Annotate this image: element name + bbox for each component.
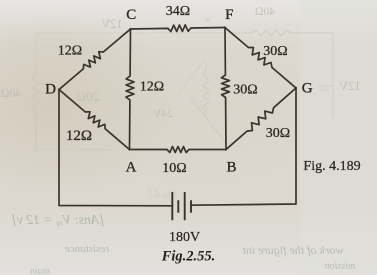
svg-text:20Ω: 20Ω: [77, 89, 99, 104]
svg-text:work of the figure int: work of the figure int: [242, 243, 344, 257]
svg-text:10Ω: 10Ω: [162, 161, 186, 176]
svg-text:D: D: [45, 82, 56, 98]
svg-text:180V: 180V: [169, 230, 200, 245]
battery 180V plates: [172, 192, 184, 220]
svg-text:Fig. 4.189: Fig. 4.189: [303, 159, 360, 174]
svg-text:30Ω: 30Ω: [233, 83, 257, 98]
ghost right wire: [332, 33, 334, 118]
ghost resistor middle: [203, 64, 209, 118]
svg-text:B: B: [226, 160, 236, 176]
svg-text:40Ω: 40Ω: [1, 88, 21, 100]
svg-text:mission: mission: [325, 261, 356, 272]
svg-text:main: main: [30, 266, 50, 275]
svg-text:G: G: [302, 80, 313, 96]
svg-text:34Ω: 34Ω: [166, 4, 190, 19]
svg-text:24V: 24V: [152, 108, 173, 120]
resistor 30ohm F-B (middle-right vertical): [221, 28, 229, 150]
resistor 30ohm G-B (lower-right diagonal): [226, 88, 296, 150]
ghost left wire: [35, 33, 37, 74]
svg-text:12Ω: 12Ω: [140, 80, 164, 95]
ghost top wire: [36, 32, 251, 34]
svg-text:40Ω: 40Ω: [255, 6, 275, 18]
resistor 12ohm D-C (upper-left diagonal): [59, 29, 131, 90]
ghost diagonal: [190, 97, 226, 143]
svg-text:12V: 12V: [339, 79, 361, 93]
svg-text:C: C: [126, 7, 136, 23]
ghost bottom wire: [36, 149, 118, 151]
resistor 12ohm C-A (middle-left vertical): [126, 29, 134, 150]
ghost resistor top-right: [251, 30, 333, 36]
resistor 12ohm D-A (lower-left diagonal): [59, 90, 130, 150]
svg-text:12V: 12V: [101, 17, 123, 31]
resistor 34ohm C-F (top): [131, 25, 226, 32]
svg-text:Fig.2.55.: Fig.2.55.: [161, 249, 216, 265]
ghost diagonal 2: [178, 60, 205, 94]
resistor 30ohm F-G (upper-right diagonal): [225, 28, 296, 89]
resistor 10ohm A-B (bottom): [130, 147, 227, 153]
ghost resistor left: [33, 74, 39, 150]
svg-text:F: F: [225, 7, 233, 23]
svg-text:30Ω: 30Ω: [266, 126, 290, 141]
svg-text:resistance: resistance: [65, 243, 109, 255]
svg-text:30Ω: 30Ω: [263, 44, 287, 59]
ghost battery right: [318, 86, 332, 90]
svg-text:[Ans: Vₓᵧ = 12 v]: [Ans: Vₓᵧ = 12 v]: [12, 212, 105, 227]
wire D down to bottom rail: [59, 90, 172, 206]
wire G down to bottom rail: [191, 88, 296, 205]
svg-text:12Ω: 12Ω: [58, 44, 82, 59]
svg-text:12Ω: 12Ω: [66, 128, 92, 144]
svg-text:A: A: [126, 160, 137, 176]
ghost x mark: [205, 17, 210, 22]
